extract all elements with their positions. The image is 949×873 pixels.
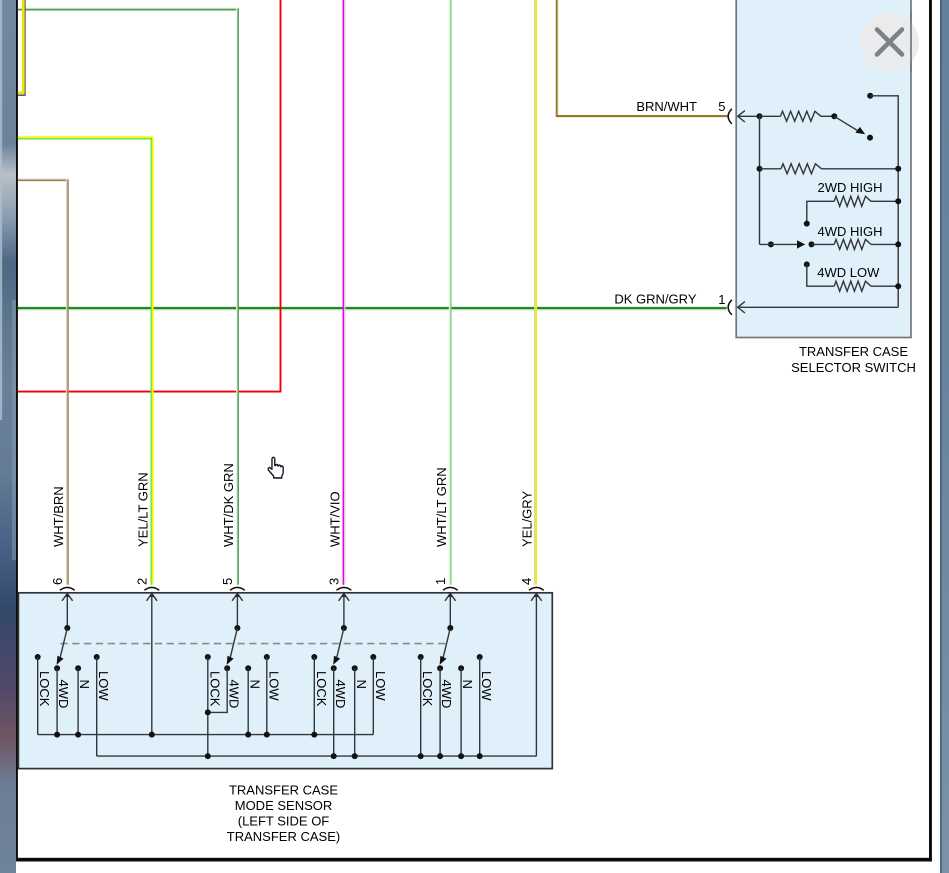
- wire pole down-bus: [759, 116, 761, 244]
- diagram page black border: left: [16, 0, 18, 862]
- connector half mode-sensor pin 3 (female arc): [337, 587, 352, 590]
- contact node top: [867, 93, 873, 99]
- resistor R3 2WD HIGH zigzag: [834, 196, 871, 206]
- resistor R4 right lead: [871, 243, 898, 245]
- pin 4 arrow (male half): [531, 594, 542, 601]
- contact LOCK group pin 5: [205, 654, 211, 660]
- resistor R4 4WD HIGH left lead: [812, 243, 835, 245]
- wire pin 4 to bus2 end: [535, 594, 537, 757]
- svg-text:LOW: LOW: [96, 671, 111, 701]
- connector half mode-sensor pin 1 (female arc): [443, 587, 458, 590]
- wire pole to 4WD HIGH contact: [760, 243, 800, 245]
- contact LOW group pin 6: [94, 654, 100, 660]
- svg-text:TRANSFER CASE: TRANSFER CASE: [229, 783, 338, 798]
- pin 3 arrow (male half): [339, 594, 350, 601]
- svg-text:SELECTOR SWITCH: SELECTOR SWITCH: [791, 360, 916, 375]
- junction node pin 5 pole: [757, 113, 763, 119]
- junction on bus1: [149, 732, 155, 738]
- junction on bus1: [54, 732, 60, 738]
- svg-text:4WD LOW: 4WD LOW: [817, 265, 880, 280]
- contact LOW group pin 5: [264, 654, 270, 660]
- wire DK GRN/GRY horizontal segment to selector pin 1: [18, 308, 727, 310]
- wire BRN/WHT vertical segment: [557, 0, 559, 117]
- resistor R1 row1 right lead: [821, 115, 834, 117]
- wire LOCK g3 to bus1: [313, 657, 315, 735]
- pin 1 arrow (male half): [445, 594, 456, 601]
- svg-text:4WD: 4WD: [439, 680, 454, 709]
- mouse cursor (hand pointer): [268, 457, 283, 478]
- wire YEL/LT GRN horizontal segment: [18, 137, 153, 139]
- junction on bus2: [477, 753, 483, 759]
- contact N group pin 5: [245, 665, 251, 671]
- bus wire 1 (upper): [38, 734, 374, 736]
- wire LOCK g4 to bus2: [420, 657, 422, 756]
- wire LOW g1 to bus2: [96, 657, 98, 756]
- resistor R5 4WD LOW zigzag: [834, 281, 871, 291]
- svg-text:(LEFT SIDE OF: (LEFT SIDE OF: [238, 814, 330, 829]
- resistor R1 row1 zigzag: [781, 111, 822, 121]
- contact 4WD group pin 5: [224, 665, 230, 671]
- connector half mode-sensor pin 2 (female arc): [144, 587, 159, 590]
- wire 4WD LOW contact lead: [807, 264, 834, 286]
- contact 4WD group pin 3: [331, 665, 337, 671]
- svg-text:LOCK: LOCK: [314, 671, 329, 707]
- junction on bus1: [245, 732, 251, 738]
- wiper arm arrowhead: [855, 127, 865, 134]
- svg-text:1: 1: [718, 292, 725, 307]
- wire LOW g3 to bus1 end: [372, 657, 374, 735]
- svg-text:MODE SENSOR: MODE SENSOR: [235, 798, 333, 813]
- svg-text:5: 5: [220, 578, 235, 585]
- junction node 4WD HIGH arm: [768, 241, 774, 247]
- contact LOW group pin 3: [370, 654, 376, 660]
- resistor R4 4WD HIGH zigzag: [834, 239, 871, 249]
- wire WHT/BRN vertical to pin 6: [67, 180, 68, 585]
- close button: [860, 12, 919, 72]
- pole node pin 1: [447, 625, 453, 631]
- svg-text:4WD: 4WD: [56, 680, 71, 709]
- contact node 2WD HIGH: [804, 221, 810, 227]
- bus wire 2 (lower): [97, 755, 537, 757]
- svg-text:2WD HIGH: 2WD HIGH: [818, 180, 883, 195]
- pin 1 arrow (male half): [738, 302, 745, 313]
- contact node 4WD HIGH: [809, 241, 815, 247]
- wire right bus to pin 1: [738, 306, 899, 308]
- resistor R2 row2 right lead: [822, 168, 899, 170]
- wire WHT/LT GRN vertical to pin 1: [450, 0, 451, 585]
- wire pin 2 to bus1: [151, 594, 153, 735]
- svg-text:4WD HIGH: 4WD HIGH: [818, 224, 883, 239]
- wire 2WD HIGH contact lead: [807, 201, 834, 222]
- node wiper pivot: [831, 113, 837, 119]
- wire N g1 to bus1: [77, 668, 79, 734]
- pin 5 arrow (male half): [232, 594, 243, 601]
- wire LOCK g2 to bus2: [207, 657, 209, 756]
- pin 2 arrow (male half): [147, 594, 158, 601]
- switch arm S6 (pointing at 4WD contact): [60, 628, 67, 659]
- connector half mode-sensor pin 4 (female arc): [529, 587, 544, 590]
- contact LOCK group pin 6: [35, 654, 41, 660]
- svg-text:BRN/WHT: BRN/WHT: [636, 99, 697, 114]
- svg-text:TRANSFER CASE): TRANSFER CASE): [227, 829, 340, 844]
- svg-text:N: N: [460, 680, 475, 689]
- svg-text:LOW: LOW: [266, 671, 281, 701]
- junction bus 4WD LOW: [895, 283, 901, 289]
- wire RED vertical segment: [280, 0, 282, 392]
- junction on bus1: [311, 732, 317, 738]
- junction on bus2: [352, 753, 358, 759]
- connector half selector pin 1 (female arc): [728, 300, 732, 315]
- diagram page black border: bottom: [16, 858, 932, 862]
- wire WHT/BRN horizontal segment: [18, 179, 69, 180]
- svg-text:YEL/LT GRN: YEL/LT GRN: [136, 472, 151, 547]
- svg-text:WHT/DK GRN: WHT/DK GRN: [221, 463, 236, 547]
- wire YEL/GRY vertical to pin 4: [535, 0, 536, 585]
- wire RED horizontal segment: [18, 391, 282, 393]
- wire node top to right bus: [870, 96, 898, 307]
- junction on bus2: [418, 753, 424, 759]
- mechanical linkage dashed line: [61, 643, 447, 645]
- resistor R1 row1 left lead: [760, 115, 781, 117]
- svg-text:LOCK: LOCK: [207, 671, 222, 707]
- svg-text:1: 1: [433, 578, 448, 585]
- selector box border over close button: [910, 12, 912, 72]
- pin 6 arrow (male half): [62, 594, 73, 601]
- contact LOW group pin 1: [477, 654, 483, 660]
- svg-text:4WD: 4WD: [333, 680, 348, 709]
- wire pin 1 to pole: [449, 594, 451, 628]
- connector half mode-sensor pin 6 (female arc): [60, 587, 75, 590]
- junction bus 4WD HIGH: [895, 241, 901, 247]
- junction bus row2: [895, 166, 901, 172]
- junction on bus1: [264, 732, 270, 738]
- svg-text:5: 5: [718, 99, 725, 114]
- contact N group pin 6: [75, 665, 81, 671]
- wire 4WD g4 to bus2: [439, 668, 441, 756]
- contact node selected position: [867, 135, 873, 141]
- junction on bus2: [437, 753, 443, 759]
- wire N g4 to bus2: [460, 668, 462, 756]
- junction bus 2WD HIGH: [895, 198, 901, 204]
- wire WHT/DK GRN horizontal segment: [18, 8, 239, 9]
- connector half mode-sensor pin 5 (female arc): [230, 587, 245, 590]
- wire N g3 to bus2: [354, 668, 356, 756]
- wire 4WD g1 to bus1: [56, 668, 58, 734]
- junction on bus2: [205, 753, 211, 759]
- left window background strip: [0, 0, 16, 873]
- transfer case mode sensor box U2: [18, 593, 552, 769]
- junction node g2 jog: [205, 709, 211, 715]
- wire pin 3 to pole: [343, 594, 345, 628]
- wire WHT/DK GRN vertical to pin 5: [237, 8, 238, 584]
- svg-text:LOCK: LOCK: [420, 671, 435, 707]
- pin 5 arrow (male half): [738, 111, 760, 122]
- svg-text:WHT/VIO: WHT/VIO: [328, 491, 343, 547]
- wire pin 6 to pole: [66, 594, 68, 628]
- diagram page black border: right: [929, 0, 932, 862]
- contact 4WD group pin 1: [437, 665, 443, 671]
- svg-text:6: 6: [50, 578, 65, 585]
- wire BRN/WHT horizontal segment to selector pin 5: [556, 116, 728, 118]
- switch wiper arm SW1: [834, 116, 859, 132]
- wire N g2 to bus1: [247, 668, 249, 734]
- svg-text:WHT/BRN: WHT/BRN: [51, 486, 66, 547]
- svg-text:2: 2: [135, 578, 150, 585]
- svg-text:4WD: 4WD: [226, 680, 241, 709]
- wire 4WD g2 jog to LOCK g2: [208, 668, 227, 712]
- svg-text:TRANSFER CASE: TRANSFER CASE: [799, 344, 908, 359]
- svg-text:LOW: LOW: [479, 671, 494, 701]
- resistor R2 row2 zigzag: [781, 164, 822, 174]
- svg-text:LOW: LOW: [373, 671, 388, 701]
- svg-text:DK GRN/GRY: DK GRN/GRY: [614, 291, 696, 306]
- switch arm S5 (pointing at 4WD contact): [230, 628, 237, 659]
- pole node pin 3: [341, 625, 347, 631]
- wire 4WD g3 to bus2: [333, 668, 335, 756]
- contact N group pin 3: [352, 665, 358, 671]
- transfer case selector switch box U1: [736, 0, 911, 338]
- connector half selector pin 5 (female arc): [728, 109, 732, 124]
- wire LOW g4 to bus2: [479, 657, 481, 756]
- svg-text:LOCK: LOCK: [37, 671, 52, 707]
- pole node pin 6: [64, 625, 70, 631]
- junction on bus2: [331, 753, 337, 759]
- wire YEL/LT GRN vertical to pin 2: [151, 138, 153, 585]
- svg-text:N: N: [77, 680, 92, 689]
- wire LOCK g1 to bus1: [37, 657, 39, 735]
- wire YEL/DK BLU top left: [18, 0, 26, 96]
- svg-text:N: N: [247, 680, 262, 689]
- contact LOCK group pin 1: [418, 654, 424, 660]
- resistor R2 row2 left lead: [760, 168, 782, 170]
- wire pin 5 to pole: [236, 594, 238, 628]
- contact LOCK group pin 3: [311, 654, 317, 660]
- svg-text:3: 3: [327, 578, 342, 585]
- switch arm S3 (pointing at 4WD contact): [337, 628, 344, 659]
- right window background strip: [940, 0, 949, 873]
- 4WD HIGH wiper arrowhead: [797, 240, 805, 248]
- contact N group pin 1: [458, 665, 464, 671]
- resistor R5 right lead: [871, 285, 898, 287]
- contact 4WD group pin 6: [54, 665, 60, 671]
- svg-text:4: 4: [519, 578, 534, 585]
- junction node row2: [757, 166, 763, 172]
- pole node pin 5: [234, 625, 240, 631]
- wire WHT/VIO vertical to pin 3: [343, 0, 345, 585]
- junction on bus1: [75, 732, 81, 738]
- resistor R3 right lead: [871, 200, 898, 202]
- switch arm S1 (pointing at 4WD contact): [443, 628, 450, 659]
- svg-text:YEL/GRY: YEL/GRY: [520, 491, 535, 547]
- wire LOW g2 to bus1: [266, 657, 268, 735]
- svg-text:WHT/LT GRN: WHT/LT GRN: [434, 467, 449, 547]
- junction on bus2: [458, 753, 464, 759]
- svg-text:N: N: [354, 680, 369, 689]
- contact node 4WD LOW: [804, 261, 810, 267]
